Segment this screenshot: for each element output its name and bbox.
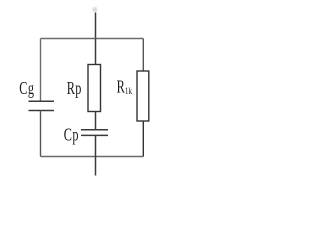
- wire: left rail upper segment (top rail to Cg): [40, 39, 42, 102]
- wire: left rail lower segment (Cg to bottom rail): [40, 111, 42, 157]
- node: top input terminal dot: [92, 7, 97, 12]
- wire: Rp to Cp: [95, 112, 97, 131]
- resistor Rp: [88, 65, 101, 112]
- label R1k: [117, 77, 133, 97]
- wire: top rail: [41, 38, 144, 40]
- resistor R1k: [137, 71, 149, 121]
- wire: right rail lower segment (R1k to bottom rail): [142, 121, 144, 157]
- svg-text:R: R: [117, 77, 126, 97]
- wire: bottom output stub: [95, 157, 97, 176]
- wire: bottom rail: [41, 156, 144, 158]
- svg-text:Cp: Cp: [64, 125, 79, 145]
- svg-text:Cg: Cg: [19, 79, 34, 99]
- svg-text:1k: 1k: [125, 86, 133, 96]
- wire: top input stub: [95, 13, 97, 40]
- svg-text:Rp: Rp: [67, 79, 82, 99]
- wire: Cp to bottom rail: [95, 135, 97, 156]
- wire: right rail upper segment (top rail to R1k): [142, 39, 144, 72]
- capacitor Cg: [29, 101, 55, 110]
- wire: top rail to Rp: [95, 39, 97, 66]
- capacitor Cp: [81, 130, 108, 136]
